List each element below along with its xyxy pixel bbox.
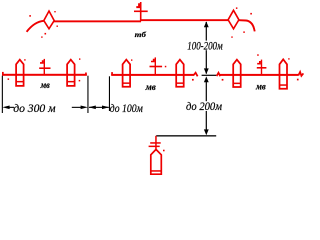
dimension line vertical upper: [206, 22, 207, 74]
stray dot near left curve: [29, 15, 31, 17]
dimension arrow down onto black line: [204, 129, 209, 135]
stray dot right of right diamond: [250, 13, 252, 15]
dimension line do100: [89, 107, 109, 108]
dimension arrow left do300: [2, 106, 9, 110]
BMP vehicle 2 of group 1: [67, 60, 75, 86]
wire: battalion line left segment: [54, 20, 141, 22]
stray dot above right diamond: [236, 7, 238, 8]
flag platoon 3: [257, 61, 261, 65]
dimension line do300 right part: [72, 107, 85, 108]
antenna bar 1: [150, 142, 161, 144]
tank symbol (diamond) right: [228, 10, 239, 29]
BMP vehicle 1 of group 2: [123, 60, 131, 87]
group 2 line left end tick: [111, 72, 113, 75]
stray dot below group 3 right end: [297, 79, 299, 81]
group 1 line left end tick: [2, 72, 4, 75]
dimension line do300 left part: [9, 107, 15, 108]
inner bar vehicle 1 group 1: [16, 81, 24, 83]
inner bar commander vehicle: [151, 170, 162, 172]
antenna mast of company commander vehicle: [155, 136, 157, 151]
BMP vehicle 2 of group 3: [280, 59, 288, 89]
dimension arrow down onto platoon row: [204, 68, 209, 74]
platoon group 2: line: [111, 74, 194, 76]
dimension tick right of do100: [109, 76, 110, 111]
wire: right hook curve out of right tank symbol: [239, 20, 255, 31]
tank symbol (diamond) left, on battalion line: [44, 11, 54, 29]
stray dot below group 3 left end: [222, 79, 224, 81]
dimension tick right of do300: [87, 76, 88, 113]
svg-text:до 100м: до 100м: [110, 102, 143, 115]
flag pole platoon 3: [261, 60, 262, 75]
BMP vehicle 2 of group 2: [176, 60, 184, 87]
svg-text:мв: мв: [145, 82, 156, 92]
flag pole platoon 1: [44, 59, 45, 75]
platoon group 3: line: [220, 74, 299, 76]
flag pole platoon 2: [155, 57, 156, 74]
antenna bar 2: [149, 146, 160, 148]
stray dot below right diamond: [231, 36, 232, 37]
wire: battalion line right segment: [140, 19, 228, 21]
group 2 line right end zigzag: [193, 73, 197, 77]
dimension arrow right do100: [102, 106, 109, 110]
flag of command post tb: [136, 3, 140, 8]
black wire to company commander vehicle: [156, 135, 216, 136]
crossbar platoon 2: [150, 66, 163, 68]
crossbar of command post tb: [134, 11, 148, 13]
inner bar vehicle 1 group 2: [123, 82, 131, 84]
svg-text:тб: тб: [135, 30, 148, 39]
dimension arrow left do100: [89, 106, 96, 110]
dimension arrow up 100-200m: [204, 21, 209, 27]
stray dot right of platoon 2 crossbar: [165, 66, 167, 68]
label do 200m background: [185, 101, 223, 111]
stray dot vehicle 1 group 2: [131, 59, 132, 60]
inner bar vehicle 2 group 1: [67, 81, 75, 83]
inner bar vehicle 2 group 3: [280, 84, 288, 86]
flag platoon 2: [151, 59, 155, 63]
BMP vehicle 1 of group 1: [16, 60, 24, 86]
dimension line vertical lower: [206, 79, 207, 131]
BMP vehicle 1 of group 3: [233, 60, 241, 87]
stray dot below left diamond: [45, 33, 47, 35]
BMP vehicle of company commander: [151, 149, 162, 174]
platoon group 1: line: [2, 74, 87, 76]
stray dot above left diamond: [54, 11, 55, 12]
stray dot below left curve: [41, 36, 42, 37]
crossbar platoon 3: [257, 67, 267, 69]
stray dot right of left diamond: [57, 26, 58, 27]
flag pole of command post tb: [140, 2, 142, 21]
svg-text:100-200м: 100-200м: [187, 40, 222, 52]
stray dot vehicle 1 group 1: [24, 59, 25, 60]
stray dot near commander vehicle: [163, 150, 165, 152]
svg-text:мв: мв: [40, 80, 50, 90]
svg-text:мв: мв: [255, 82, 266, 92]
dimension tick at platoon row: [202, 75, 217, 76]
platoon group 3: left end zigzag: [217, 73, 221, 77]
stray dot vehicle 2 group 3: [288, 58, 289, 59]
stray dot far right: [257, 54, 259, 56]
group 1 line right end tick: [85, 73, 87, 76]
stray dot below vehicle 2 group 1: [79, 80, 81, 82]
svg-text:до 200м: до 200м: [186, 101, 222, 113]
group 3 line right end zigzag: [298, 72, 303, 76]
dimension tick left of do300: [2, 76, 3, 113]
crossbar platoon 1: [39, 67, 50, 69]
stray dot below group 2 right end: [192, 79, 194, 81]
stray dot below right hook: [243, 31, 245, 33]
inner bar vehicle 1 group 3: [233, 83, 241, 85]
flag platoon 1: [40, 60, 44, 64]
label 100-200m background: [187, 41, 224, 51]
stray dot below group 1 left end: [8, 78, 10, 80]
inner bar vehicle 2 group 2: [176, 82, 184, 84]
svg-text:до 300 м: до 300 м: [13, 102, 56, 115]
wire: left hook curve into left tank symbol: [27, 21, 44, 32]
stray dot vehicle 2 group 1: [79, 58, 80, 59]
dimension arrow up below platoon row: [204, 76, 209, 82]
dimension arrow right do300: [81, 106, 88, 110]
